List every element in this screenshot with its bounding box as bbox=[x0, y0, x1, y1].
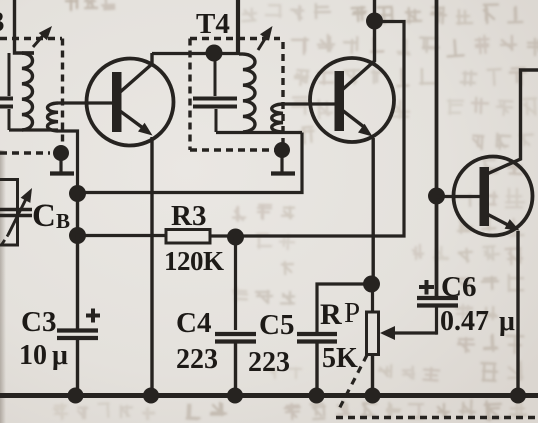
wire C4 bottom bbox=[234, 342, 237, 396]
wire C6 top feed from top edge bbox=[435, 0, 439, 298]
transistor V1 collector bbox=[119, 53, 152, 93]
wire T4 coil bottoms bbox=[216, 131, 302, 134]
node R3 right / C4 top bbox=[227, 229, 244, 246]
wire node B to R3 bbox=[77, 234, 166, 237]
capacitor in T4 tank bbox=[193, 61, 237, 132]
capacitor C6 polarity + bbox=[419, 280, 434, 295]
transistor V2 base bar bbox=[335, 71, 345, 131]
capacitor C4 plates bbox=[215, 334, 256, 342]
label C5 value bbox=[248, 347, 290, 378]
rail junction C4 bbox=[227, 388, 243, 404]
wire C3 top bbox=[76, 235, 79, 330]
capacitor in T3 tank (cut off) bbox=[0, 53, 13, 130]
svg-text:R: R bbox=[320, 298, 342, 331]
label C4 value bbox=[176, 344, 218, 375]
node V2 collector bbox=[366, 13, 383, 30]
transistor V2 circle bbox=[310, 58, 394, 142]
node V3 base bbox=[428, 188, 445, 205]
label R3 value bbox=[164, 246, 224, 276]
node B junction bbox=[69, 227, 86, 244]
label C5 bbox=[259, 309, 294, 341]
transistor V1 circle bbox=[87, 59, 174, 146]
transistor V3 circle bbox=[454, 157, 533, 236]
variable capacitor CB plates bbox=[0, 210, 32, 216]
variable capacitor CB arrow bbox=[2, 188, 32, 244]
label RP bbox=[320, 297, 360, 331]
wire C3 bottom bbox=[76, 338, 79, 395]
wire R3 to V2 collector net bbox=[210, 22, 404, 237]
wire V3 emitter to ground rail bbox=[516, 231, 519, 395]
svg-text:C: C bbox=[32, 198, 56, 234]
capacitor C6 plates bbox=[417, 298, 458, 306]
transistor V2 emitter arrow bbox=[342, 110, 373, 137]
label C3 value bbox=[19, 340, 68, 371]
wire C4 top stub bbox=[234, 237, 237, 330]
wire C6 bottom to wiper bbox=[435, 306, 437, 334]
svg-text:C3: C3 bbox=[21, 306, 56, 338]
transformer T3 shield box bbox=[0, 39, 63, 154]
potentiometer RP wiper arrow bbox=[380, 326, 437, 340]
mechanical link dashed bbox=[336, 355, 538, 418]
transformer T3 tuning arrow bbox=[33, 26, 52, 47]
svg-text:10: 10 bbox=[19, 340, 47, 371]
capacitor C3 plates bbox=[57, 331, 98, 339]
transformer T4 tuning arrow bbox=[258, 26, 273, 50]
wire V1 collector to T4 tank bbox=[152, 52, 240, 55]
capacitor C5 plates bbox=[297, 334, 337, 342]
transistor V3 collector bbox=[487, 70, 538, 174]
node T4 tank top bbox=[206, 45, 223, 62]
label C6 bbox=[441, 271, 476, 303]
wire T3 secondary bottom to node A bbox=[58, 131, 78, 192]
svg-text:0.47: 0.47 bbox=[440, 306, 489, 337]
svg-text:C6: C6 bbox=[441, 271, 476, 303]
wire V2 emitter to RP top bbox=[372, 138, 375, 284]
svg-text:B: B bbox=[56, 209, 70, 233]
label T3 (cut off) bbox=[0, 6, 5, 38]
svg-text:T4: T4 bbox=[196, 8, 230, 40]
rail junction V3 emitter bbox=[510, 388, 526, 404]
wire V3 base bbox=[436, 195, 480, 198]
svg-text:3: 3 bbox=[0, 6, 5, 38]
transformer T3 secondary coil bbox=[48, 103, 59, 131]
ground T4 shield bbox=[271, 142, 295, 174]
rail junction V1 emitter bbox=[143, 388, 159, 404]
rail junction C5 bbox=[309, 388, 325, 404]
wire node A to node B bbox=[76, 194, 79, 236]
label C3 bbox=[21, 306, 56, 338]
ground rail bbox=[0, 393, 538, 398]
potentiometer RP body bbox=[367, 312, 379, 355]
wire T4 feed from top edge bbox=[236, 0, 240, 55]
label C4 bbox=[176, 307, 211, 339]
capacitor C3 polarity + bbox=[86, 309, 100, 323]
wire C5 bottom bbox=[315, 342, 318, 396]
svg-text:C4: C4 bbox=[176, 307, 211, 339]
node A junction bbox=[69, 185, 86, 202]
svg-text:μ: μ bbox=[499, 306, 515, 337]
label T4 bbox=[196, 8, 230, 40]
wire RP bottom bbox=[371, 355, 374, 396]
transistor V2 collector bbox=[342, 0, 375, 90]
resistor R3 bbox=[166, 230, 210, 244]
label RP value bbox=[322, 343, 358, 374]
wire T4 bottom to node A bbox=[77, 133, 302, 193]
wire RP top stub bbox=[371, 284, 374, 312]
transistor V1 emitter arrow bbox=[120, 111, 153, 136]
label R3 bbox=[171, 200, 206, 232]
transformer T4 shield box bbox=[190, 39, 283, 151]
svg-text:120K: 120K bbox=[164, 246, 224, 276]
transistor V3 base bar bbox=[480, 167, 490, 226]
svg-text:C5: C5 bbox=[259, 309, 294, 341]
wire T3 secondary to V1 base bbox=[58, 101, 113, 104]
svg-text:μ: μ bbox=[52, 340, 68, 371]
wire V1 emitter to ground rail bbox=[150, 137, 153, 395]
rail junction RP bbox=[365, 388, 381, 404]
variable capacitor CB box bbox=[0, 180, 18, 246]
label CB bbox=[32, 198, 70, 234]
svg-text:5K: 5K bbox=[322, 343, 358, 374]
node RP top bbox=[363, 276, 380, 293]
transistor V3 emitter arrow bbox=[487, 214, 520, 231]
svg-text:R3: R3 bbox=[171, 200, 206, 232]
transformer T3 primary coil bbox=[22, 53, 34, 130]
wire C5 top bbox=[317, 284, 371, 334]
svg-text:223: 223 bbox=[176, 344, 218, 375]
transistor V1 base bar bbox=[112, 72, 122, 132]
svg-text:223: 223 bbox=[248, 347, 290, 378]
transformer T4 primary coil bbox=[239, 54, 255, 132]
rail junction C3 bbox=[68, 388, 84, 404]
transformer T4 secondary coil bbox=[272, 104, 283, 132]
wire T3 feed from top edge bbox=[15, 0, 35, 53]
wire T3 coil bottoms bbox=[9, 128, 58, 131]
ground T3 shield bbox=[50, 145, 74, 174]
label C6 value bbox=[440, 306, 515, 337]
wire T4 secondary to V2 base bbox=[283, 102, 335, 105]
svg-text:P: P bbox=[344, 297, 360, 329]
